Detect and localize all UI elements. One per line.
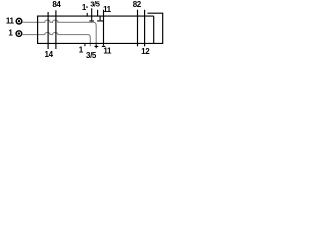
connector tick 1 bottom (84, 44, 86, 46)
svg-text:3/5: 3/5 (90, 0, 101, 9)
svg-text:11: 11 (103, 47, 112, 56)
wire W5 vertical drop inside box K2 (153, 16, 155, 43)
connector tick 5 top (97, 10, 99, 17)
wire W3 black drop from top rail down and right (102, 10, 106, 47)
svg-text:12: 12 (141, 47, 150, 56)
terminal 1 (16, 31, 22, 37)
connector pin 3 top with foot (89, 8, 94, 21)
wire W4 black from W1 cup to bottom rail with foot (95, 45, 99, 49)
box K2 outline right (148, 13, 163, 43)
terminal 11 (16, 18, 22, 24)
svg-text:14: 14 (45, 50, 54, 59)
svg-text:82: 82 (133, 0, 142, 9)
connector strip vertical pin 14 (55, 10, 57, 49)
right connector vertical pin 82 (137, 10, 139, 47)
right connector vertical pin 12 (144, 10, 146, 47)
tick mark 1 top (86, 6, 88, 16)
component box top rail (37, 15, 154, 17)
svg-text:3/5: 3/5 (86, 51, 97, 60)
wire W1 gray from terminal 11 with connector bumps (22, 20, 96, 45)
svg-text:11: 11 (103, 5, 112, 14)
component box left edge (37, 16, 39, 43)
svg-text:11: 11 (6, 16, 15, 25)
wire W2 gray from terminal 1 with connector bumps (22, 32, 90, 46)
connector strip vertical pin 84 (47, 12, 49, 49)
connector pin 11 top stem and foot (97, 16, 104, 21)
component box bottom rail (37, 42, 154, 44)
svg-text:84: 84 (52, 0, 61, 9)
